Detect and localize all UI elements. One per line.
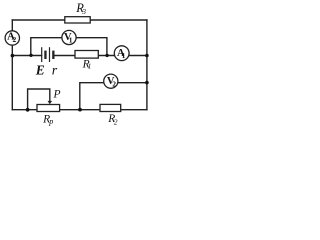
svg-text:3: 3 (81, 7, 86, 16)
battery plate long 2 (49, 47, 51, 62)
svg-text:2: 2 (112, 80, 116, 89)
svg-text:1: 1 (88, 62, 92, 71)
svg-text:p: p (48, 117, 53, 126)
svg-text:2: 2 (114, 118, 118, 127)
svg-text:r: r (52, 63, 58, 78)
wire: V2 branch (80, 83, 147, 110)
wire: Rp wiper loop (28, 89, 50, 110)
battery plate short thick 1 (44, 51, 46, 59)
wire: top rail (12, 19, 147, 21)
svg-text:P: P (53, 89, 61, 101)
wire: battery branch left (12, 55, 41, 57)
ammeter A1 circle (114, 46, 129, 61)
svg-text:E: E (35, 62, 45, 77)
junction dot V1 right leg (105, 54, 108, 57)
junction dot Rp loop bottom rail (26, 108, 30, 112)
ammeter A2 circle (5, 31, 19, 45)
junction dot A1 right rail (145, 54, 149, 58)
junction dot V1 left leg (29, 54, 32, 57)
wire: V1 branch (31, 38, 107, 56)
voltmeter V2 circle (104, 74, 118, 88)
battery plate short thick 2 (52, 51, 54, 59)
junction dot V2 right rail (145, 81, 149, 85)
junction dot V2 leg bottom rail (78, 108, 82, 112)
wire: right rail (146, 20, 148, 110)
svg-text:1: 1 (69, 35, 73, 44)
resistor R2 box (100, 104, 121, 111)
rheostat Rp box (37, 105, 60, 112)
wire: left rail (11, 20, 13, 110)
battery E,r plate long 1 (41, 47, 43, 62)
resistor R3 box (65, 17, 90, 23)
wiper arrowhead P (48, 101, 53, 104)
svg-text:1: 1 (122, 51, 126, 60)
junction dot battery-left rail (11, 54, 15, 58)
resistor R1 box (75, 51, 98, 59)
wire: battery branch right to R1 and A1 (55, 55, 147, 57)
wire: bottom rail (12, 109, 147, 111)
svg-text:2: 2 (13, 35, 17, 44)
voltmeter V1 circle (62, 30, 76, 44)
